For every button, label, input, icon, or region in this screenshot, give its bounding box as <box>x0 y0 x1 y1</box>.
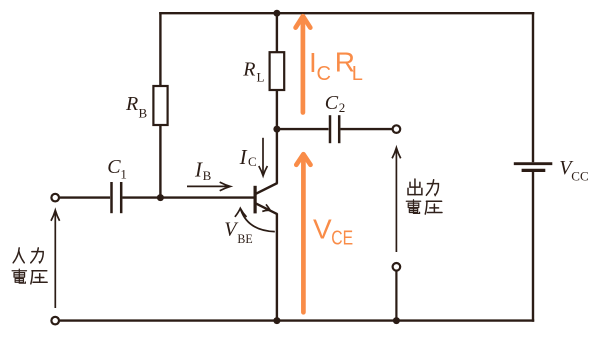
arrow IC RL (orange) <box>296 16 311 112</box>
svg-text:CC: CC <box>571 168 588 183</box>
resistor RB <box>153 86 167 125</box>
kanji ryoku (power) <box>31 248 43 263</box>
battery VCC short plate <box>522 169 546 172</box>
svg-text:C: C <box>107 156 121 178</box>
resistor RL top wire <box>276 13 278 52</box>
arrow input voltage <box>51 210 60 308</box>
kanji den (electric) <box>406 200 420 214</box>
svg-text:1: 1 <box>120 167 127 182</box>
wire emitter vertical <box>276 214 278 321</box>
terminal input top <box>51 194 59 202</box>
terminal output top <box>393 125 401 133</box>
resistor RL <box>270 52 285 90</box>
svg-text:CE: CE <box>331 228 353 250</box>
arrow VCE (orange) <box>296 154 310 312</box>
transistor Q1 collector diagonal <box>256 183 278 194</box>
svg-text:BE: BE <box>237 231 252 246</box>
terminal output mid <box>393 263 401 271</box>
wire base left segment <box>59 196 110 198</box>
capacitor C1 <box>112 182 122 213</box>
arrow output voltage <box>392 148 401 252</box>
arrow IB <box>187 182 230 191</box>
kanji atsu (pressure) <box>425 201 442 214</box>
kanji shutsu (exit) <box>408 179 422 195</box>
wire RB to base node <box>159 125 161 198</box>
node dot bottom output <box>393 317 400 324</box>
svg-text:B: B <box>203 168 212 183</box>
wire collector node to C2 <box>277 128 329 130</box>
arrow IC <box>259 138 268 176</box>
svg-text:I: I <box>239 145 248 169</box>
kanji atsu (pressure) <box>31 271 47 284</box>
svg-text:2: 2 <box>339 100 346 115</box>
wire left vertical to RB <box>159 12 161 86</box>
svg-text:R: R <box>242 59 255 81</box>
transistor Q1 base bar <box>254 186 257 214</box>
kanji ryoku (power) <box>426 180 438 196</box>
emitter arrow head <box>262 204 270 211</box>
battery VCC long plate <box>514 162 553 165</box>
svg-text:L: L <box>257 70 265 85</box>
svg-text:V: V <box>313 214 332 245</box>
kanji den (electric) <box>12 269 26 283</box>
terminal input bottom <box>51 317 59 325</box>
arrow VBE arc <box>235 208 275 231</box>
kanji in (enter) <box>13 248 24 263</box>
wire right vertical to battery <box>532 12 534 162</box>
wire bottom horizontal <box>59 319 534 321</box>
svg-text:L: L <box>352 63 363 85</box>
label output voltage kanji <box>406 179 442 214</box>
svg-text:C: C <box>325 92 339 114</box>
svg-text:C: C <box>248 154 257 169</box>
svg-text:C: C <box>317 63 331 85</box>
wire top horizontal <box>159 12 534 14</box>
node dot base <box>157 194 164 201</box>
node dot collector <box>273 126 280 133</box>
label input voltage kanji <box>12 248 47 284</box>
wire battery to bottom <box>532 172 534 322</box>
transistor Q1 emitter diagonal <box>256 203 278 214</box>
wire collector vertical <box>276 129 278 184</box>
node dot top RL <box>273 10 280 17</box>
wire C2 to output terminal <box>341 128 393 130</box>
wire output branch circle to bottom <box>395 271 397 321</box>
svg-text:B: B <box>139 106 148 121</box>
wire RL to collector node <box>276 90 278 129</box>
capacitor C2 <box>330 115 339 143</box>
wire base right segment <box>123 196 254 198</box>
node dot bottom emitter <box>273 317 280 324</box>
svg-text:R: R <box>125 93 138 115</box>
